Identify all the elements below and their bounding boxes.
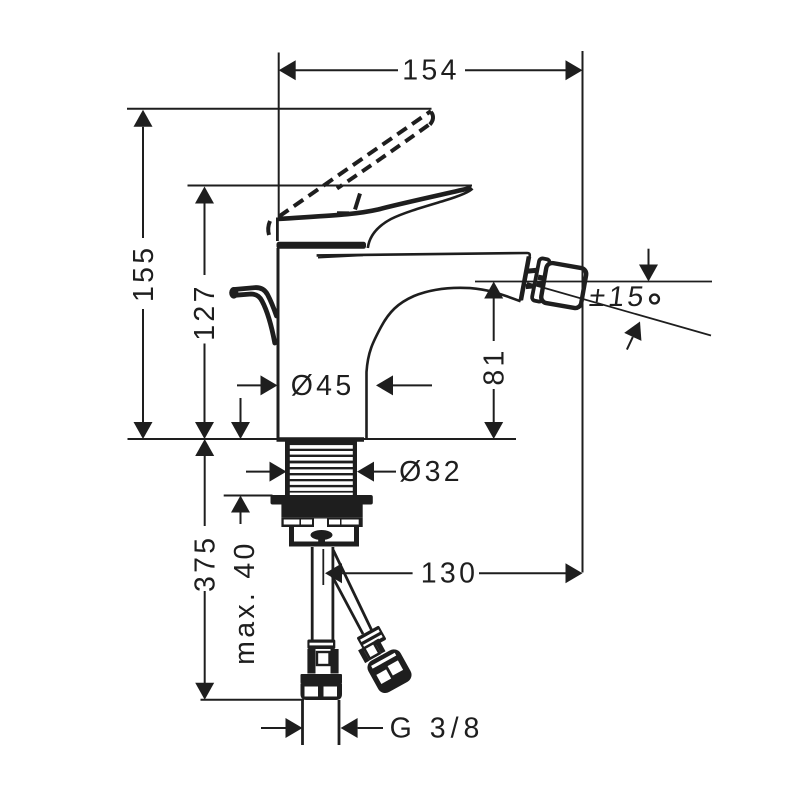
svg-text:81: 81 (479, 347, 511, 385)
svg-text:155: 155 (128, 245, 160, 302)
svg-text:G 3/8: G 3/8 (390, 713, 485, 745)
svg-text:375: 375 (189, 535, 221, 592)
svg-text:±15: ±15 (588, 281, 649, 313)
svg-text:127: 127 (189, 283, 221, 340)
svg-text:154: 154 (402, 55, 459, 87)
svg-text:Ø32: Ø32 (399, 456, 463, 488)
svg-text:max. 40: max. 40 (229, 540, 261, 664)
svg-text:130: 130 (421, 558, 478, 590)
svg-text:Ø45: Ø45 (291, 370, 355, 402)
